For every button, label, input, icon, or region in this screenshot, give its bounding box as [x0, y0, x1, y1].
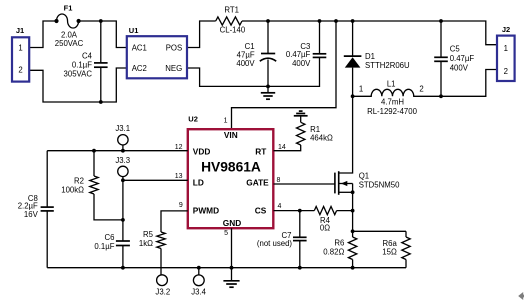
- svg-text:400V: 400V: [292, 59, 311, 68]
- capacitor C8 bottom lead: [46, 211, 48, 268]
- svg-text:13: 13: [175, 173, 183, 180]
- diode D1 anode lead: [352, 68, 354, 97]
- wire L1 to J2 pin2: [441, 70, 497, 97]
- svg-text:GATE: GATE: [246, 177, 269, 187]
- node C6 ground junction: [121, 266, 125, 270]
- connector J2: [497, 36, 515, 81]
- transistor Q1 body lead with arrow: [339, 183, 353, 185]
- capacitor C3 top lead: [319, 21, 321, 54]
- svg-text:400V: 400V: [236, 59, 255, 68]
- capacitor C1 bottom lead: [267, 60, 269, 87]
- svg-text:0.1µF: 0.1µF: [72, 60, 92, 69]
- svg-text:AC2: AC2: [132, 64, 147, 73]
- test point J3.3: [118, 166, 128, 176]
- wire PWMD to R5: [161, 211, 188, 232]
- node C7 ground junction: [298, 266, 302, 270]
- node J3.4 junction: [197, 266, 201, 270]
- fuse F1 body: [57, 14, 79, 28]
- wire CS to R4: [274, 210, 315, 212]
- wire GATE to Q1: [274, 183, 335, 185]
- svg-text:J2: J2: [502, 25, 510, 34]
- svg-text:R2: R2: [74, 177, 84, 186]
- svg-text:0.1µF: 0.1µF: [94, 242, 114, 251]
- svg-text:8: 8: [277, 177, 281, 184]
- svg-text:1: 1: [359, 85, 363, 94]
- svg-text:(not used): (not used): [257, 239, 293, 248]
- svg-text:RT1: RT1: [224, 6, 239, 15]
- node C5 bottom junction: [439, 94, 443, 98]
- test point J3.1: [118, 135, 128, 145]
- inductor L1: [353, 89, 441, 96]
- svg-text:100kΩ: 100kΩ: [61, 186, 84, 195]
- wire VDD rail from C8 to U2: [47, 150, 188, 152]
- svg-text:16V: 16V: [24, 210, 39, 219]
- svg-text:400V: 400V: [450, 63, 469, 72]
- svg-text:2: 2: [18, 66, 22, 75]
- wire LD from J3.3 to U2: [123, 179, 188, 181]
- wire ground rail: [47, 267, 406, 269]
- svg-text:NEG: NEG: [165, 64, 182, 73]
- svg-text:STTH2R06U: STTH2R06U: [365, 61, 410, 70]
- svg-text:C5: C5: [450, 44, 461, 53]
- svg-text:9: 9: [179, 202, 183, 209]
- capacitor C6 bottom lead: [122, 246, 124, 268]
- capacitor C5: [434, 56, 448, 58]
- resistor R5: [157, 232, 165, 249]
- capacitor C8: [41, 206, 54, 208]
- svg-text:R1: R1: [310, 125, 320, 134]
- wire U2 GND pin to rail: [231, 228, 233, 268]
- capacitor C7: [293, 236, 307, 238]
- svg-text:RL-1292-4700: RL-1292-4700: [367, 107, 418, 116]
- svg-text:J1: J1: [16, 26, 24, 35]
- svg-text:0.47µF: 0.47µF: [450, 54, 475, 63]
- node C3 top junction: [318, 19, 322, 23]
- node U2 GND junction: [230, 266, 234, 270]
- svg-text:0.47µF: 0.47µF: [286, 50, 311, 59]
- node Q1 source junction: [351, 190, 355, 194]
- node C1 bottom junction: [266, 85, 270, 89]
- capacitor C1 top lead: [267, 21, 269, 54]
- wire U1 POS to RT1: [187, 21, 216, 48]
- wire R4 to Q1 source node: [337, 210, 353, 212]
- svg-text:47µF: 47µF: [237, 51, 255, 60]
- resistor R4: [314, 207, 336, 215]
- svg-text:L1: L1: [387, 79, 396, 88]
- svg-text:LD: LD: [193, 177, 204, 187]
- cursor arrow bottom right: [518, 292, 524, 300]
- svg-text:J3.3: J3.3: [115, 156, 130, 165]
- svg-text:AC1: AC1: [132, 43, 147, 52]
- svg-text:1: 1: [18, 43, 22, 52]
- svg-text:U1: U1: [129, 26, 139, 35]
- svg-text:305VAC: 305VAC: [64, 69, 93, 78]
- node J3.3 junction: [121, 178, 125, 182]
- node C7 top junction: [298, 209, 302, 213]
- ground at U2 GND: [231, 268, 233, 281]
- svg-text:VIN: VIN: [224, 130, 238, 140]
- resistor R1: [297, 122, 305, 145]
- node R4 Q1 junction: [351, 209, 355, 213]
- svg-text:POS: POS: [166, 43, 182, 52]
- svg-text:5: 5: [224, 230, 228, 237]
- svg-text:VDD: VDD: [193, 147, 211, 157]
- capacitor C3: [313, 53, 327, 55]
- svg-text:15Ω: 15Ω: [382, 248, 397, 257]
- node R2 top junction: [92, 149, 96, 153]
- wire R6 bottom lead: [352, 260, 354, 268]
- node C4 top junction: [99, 19, 103, 23]
- svg-text:PWMD: PWMD: [193, 205, 219, 215]
- svg-text:CL-140: CL-140: [220, 25, 246, 34]
- bridge rectifier U1 box: [127, 36, 187, 78]
- svg-text:1: 1: [504, 44, 508, 53]
- wire RT pin to R1: [274, 145, 301, 151]
- svg-text:HV9861A: HV9861A: [201, 159, 261, 174]
- capacitor C5 top lead: [440, 21, 442, 57]
- svg-text:4.7mH: 4.7mH: [381, 97, 404, 106]
- node VIN top junction: [334, 19, 338, 23]
- node D1 top junction: [351, 19, 355, 23]
- capacitor C8 top lead: [46, 151, 48, 207]
- svg-text:250VAC: 250VAC: [55, 39, 84, 48]
- svg-text:J3.2: J3.2: [155, 287, 170, 296]
- wire J1 pin2 to AC2 of U1: [29, 68, 127, 102]
- wire J1 pin1 to fuse F1: [29, 21, 56, 48]
- wire C4 bottom lead: [100, 67, 102, 102]
- svg-text:0.82Ω: 0.82Ω: [323, 247, 344, 256]
- svg-text:J3.4: J3.4: [191, 287, 206, 296]
- wire VIN riser from top rail to U2 VIN: [232, 21, 337, 129]
- thermistor RT1: [216, 17, 242, 25]
- capacitor C6 top lead: [122, 180, 124, 241]
- svg-text:C4: C4: [82, 52, 93, 61]
- node R2 C6 junction: [121, 218, 125, 222]
- capacitor C5 bottom lead: [440, 61, 442, 96]
- test point J3.4: [193, 275, 204, 286]
- node J3.1 junction: [121, 149, 125, 153]
- svg-text:R5: R5: [143, 230, 154, 239]
- svg-text:C6: C6: [105, 233, 115, 242]
- svg-text:14: 14: [278, 144, 286, 151]
- node D1 L1 junction: [351, 94, 355, 98]
- ground at C1: [267, 86, 269, 92]
- transistor Q1 channel bar: [338, 171, 340, 195]
- wire U1 NEG to C1/C3 bottom rail: [187, 57, 320, 86]
- op-amp IC U2 box: [188, 129, 273, 228]
- transistor Q1 drain lead: [339, 96, 353, 173]
- capacitor C4: [94, 62, 108, 64]
- wire R5 to J3.2: [160, 249, 162, 275]
- svg-text:RT: RT: [255, 147, 266, 157]
- wire top rail RT1 to D1 and C5 to J2 pin1: [242, 21, 497, 45]
- svg-text:STD5NM50: STD5NM50: [359, 180, 400, 189]
- node R6 R6a junction: [351, 229, 355, 233]
- svg-text:0Ω: 0Ω: [320, 223, 330, 232]
- inverted ground at R1: [300, 116, 302, 123]
- capacitor C1 polarized: [261, 53, 275, 55]
- capacitor C7 top lead: [299, 211, 301, 238]
- diode D1 cathode bar: [344, 55, 362, 57]
- svg-text:R6: R6: [334, 239, 344, 248]
- node C4 bottom junction: [99, 100, 103, 104]
- test point J3.2: [157, 275, 168, 286]
- diode D1 lead from top rail: [352, 21, 354, 56]
- svg-text:464kΩ: 464kΩ: [310, 134, 333, 143]
- fuse F1 right terminal dot: [77, 19, 81, 23]
- svg-text:4: 4: [278, 203, 282, 210]
- capacitor C7 bottom lead: [299, 241, 301, 268]
- resistor R2: [93, 151, 95, 176]
- svg-text:D1: D1: [365, 52, 375, 61]
- resistor R6a: [405, 231, 407, 237]
- svg-text:12: 12: [175, 144, 183, 151]
- capacitor C6: [116, 240, 130, 242]
- connector J1: [12, 37, 29, 81]
- svg-text:Q1: Q1: [359, 172, 369, 181]
- transistor Q1 gate bar: [334, 173, 336, 194]
- diode D1 anode triangle: [345, 57, 361, 67]
- fuse F1 left terminal dot: [54, 19, 58, 23]
- svg-text:1kΩ: 1kΩ: [139, 239, 153, 248]
- svg-text:U2: U2: [188, 115, 198, 124]
- svg-text:2: 2: [504, 67, 508, 76]
- transistor Q1 source lead: [339, 191, 353, 193]
- wire fuse to AC1 of U1: [79, 21, 127, 48]
- svg-text:J3.1: J3.1: [115, 124, 130, 133]
- svg-text:2: 2: [419, 85, 423, 94]
- resistor R6: [348, 237, 356, 260]
- wire C4 top lead: [100, 21, 102, 63]
- svg-text:1: 1: [224, 118, 228, 125]
- wire R6 branch: [352, 211, 354, 237]
- node C5 top junction: [439, 19, 443, 23]
- node C1 top junction: [266, 19, 270, 23]
- node R6 ground junction: [351, 266, 355, 270]
- svg-text:GND: GND: [223, 218, 241, 228]
- svg-text:F1: F1: [64, 4, 73, 13]
- svg-text:CS: CS: [255, 205, 267, 215]
